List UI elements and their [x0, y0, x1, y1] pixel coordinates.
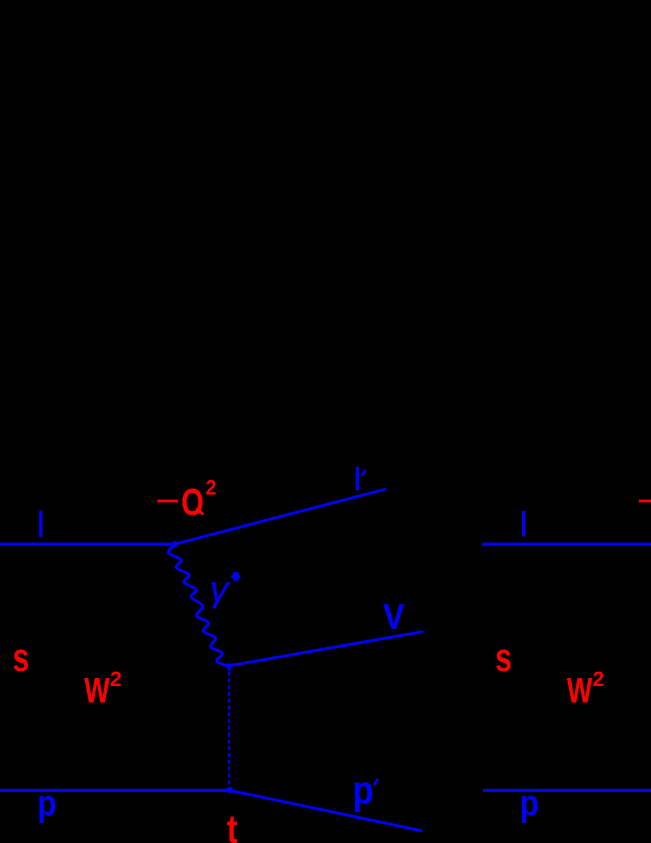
svg-text:V: V — [383, 598, 405, 638]
svg-text:p: p — [520, 783, 539, 824]
svg-text:s: s — [495, 636, 512, 680]
svg-text:t: t — [227, 806, 238, 843]
svg-text:2: 2 — [110, 668, 122, 691]
svg-text:2: 2 — [206, 476, 217, 500]
svg-text:s: s — [13, 636, 30, 680]
svg-text:2: 2 — [593, 668, 605, 691]
svg-text:O: O — [181, 481, 203, 524]
svg-text:W: W — [84, 671, 110, 710]
svg-text:γ: γ — [210, 568, 232, 609]
svg-text:W: W — [567, 671, 593, 710]
svg-text:p: p — [353, 767, 374, 812]
svg-text:p: p — [37, 783, 56, 824]
